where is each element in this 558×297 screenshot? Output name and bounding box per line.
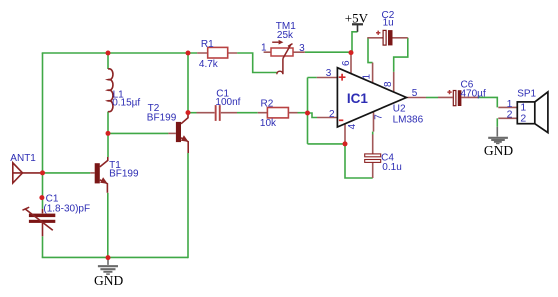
wire T1 base (43, 172, 91, 174)
svg-text:1: 1 (261, 42, 267, 53)
ground GND main (94, 258, 123, 288)
svg-text:U2: U2 (393, 103, 406, 114)
junction node top-rail/T2-collector (186, 51, 191, 56)
wire T2 emitter down (187, 153, 189, 258)
svg-text:470µf: 470µf (461, 89, 486, 100)
junction node T2 collector (186, 110, 191, 115)
svg-text:IC1: IC1 (347, 91, 369, 106)
wire C1 to R2 (237, 112, 258, 114)
svg-text:10k: 10k (260, 118, 277, 129)
wire R2 to node (298, 112, 308, 114)
svg-text:25k: 25k (277, 30, 294, 41)
svg-text:ANT1: ANT1 (10, 153, 36, 164)
svg-text:R2: R2 (261, 98, 274, 109)
antenna ANT1 (10, 153, 41, 183)
capacitor C1 100nf (197, 89, 241, 121)
svg-text:1u: 1u (383, 18, 394, 29)
svg-text:GND: GND (484, 143, 513, 158)
svg-text:2: 2 (507, 109, 513, 121)
resistor R1 (197, 39, 237, 70)
capacitor C4 0.1u (365, 134, 402, 178)
wire node jog to pin2 (308, 113, 318, 118)
variable capacitor C1 (1.8-30)pF (23, 194, 91, 237)
junction node GND rail (106, 255, 111, 260)
ground GND speaker (484, 127, 513, 158)
wire bottom rail (43, 256, 189, 259)
junction node pin4 (343, 141, 348, 146)
svg-text:+5V: +5V (345, 10, 369, 25)
svg-text:R1: R1 (201, 39, 214, 50)
wire node to pin4 node (308, 143, 346, 145)
junction node top-rail/L1 (106, 51, 111, 56)
junction node L1/T2-base (106, 131, 111, 136)
wire C2 left to pin1 (368, 38, 373, 63)
wire L1 bottom to T1 collector (107, 112, 109, 158)
wire T2 collector up (187, 53, 189, 113)
svg-text:5: 5 (412, 88, 418, 99)
wire pin7 to C4 (372, 132, 374, 135)
svg-text:2: 2 (329, 109, 335, 120)
svg-text:(1.8-30)pF: (1.8-30)pF (43, 203, 90, 214)
inductor L1 (108, 69, 140, 112)
wire C6 to SP1 pin1 (478, 97, 497, 107)
junction node R2/pin3 (305, 111, 310, 116)
wire C4 bottom loop (345, 144, 373, 178)
svg-text:7: 7 (374, 114, 385, 120)
op-amp IC1 U2 LM386 (317, 53, 426, 144)
svg-text:BF199: BF199 (109, 168, 139, 179)
svg-text:8: 8 (383, 81, 394, 87)
wire left rail bottom (42, 236, 44, 257)
junction node C1 var (39, 195, 44, 200)
transistor T2 BF199 (147, 103, 189, 153)
wire R1 to TM1 wiper (237, 53, 277, 73)
svg-text:0.1u: 0.1u (382, 162, 401, 173)
svg-text:BF199: BF199 (147, 113, 177, 124)
svg-text:2: 2 (520, 113, 526, 125)
resistor R2 (258, 98, 298, 129)
power +5V (345, 10, 369, 32)
wire TM1 pin3 to +5V node (305, 51, 351, 53)
wire top rail (42, 52, 197, 54)
wire T2 base (108, 132, 168, 134)
wire L1 top (107, 53, 109, 69)
trimmer TM1 (261, 21, 305, 74)
wire +5V stem to node (352, 32, 358, 53)
svg-text:3: 3 (299, 43, 305, 54)
svg-text:100nf: 100nf (215, 97, 240, 108)
svg-text:SP1: SP1 (517, 88, 536, 99)
svg-text:LM386: LM386 (393, 114, 424, 125)
junction node ANT1 (40, 170, 45, 175)
wire pin5 to C6 (426, 97, 438, 99)
wire node to C1 100nf (188, 112, 197, 114)
capacitor C2 1u (367, 10, 408, 45)
svg-text:4.7k: 4.7k (199, 59, 219, 70)
wire left rail top (42, 53, 44, 209)
svg-text:4: 4 (347, 123, 358, 129)
junction node +5V (349, 50, 354, 55)
wire T1 emitter down (107, 193, 109, 258)
svg-text:6: 6 (341, 60, 352, 66)
svg-text:GND: GND (94, 273, 123, 288)
wire node to pin3 (308, 78, 317, 144)
speaker SP1 (498, 88, 548, 132)
svg-text:1: 1 (361, 74, 372, 80)
wire SP1 pin2 to GND (496, 118, 498, 127)
wire C2 right to pin8 (394, 38, 408, 72)
svg-text:3: 3 (326, 68, 332, 79)
capacitor C6 470uf (438, 80, 486, 106)
transistor T1 BF199 (90, 157, 139, 193)
svg-text:0.15µf: 0.15µf (112, 98, 140, 109)
